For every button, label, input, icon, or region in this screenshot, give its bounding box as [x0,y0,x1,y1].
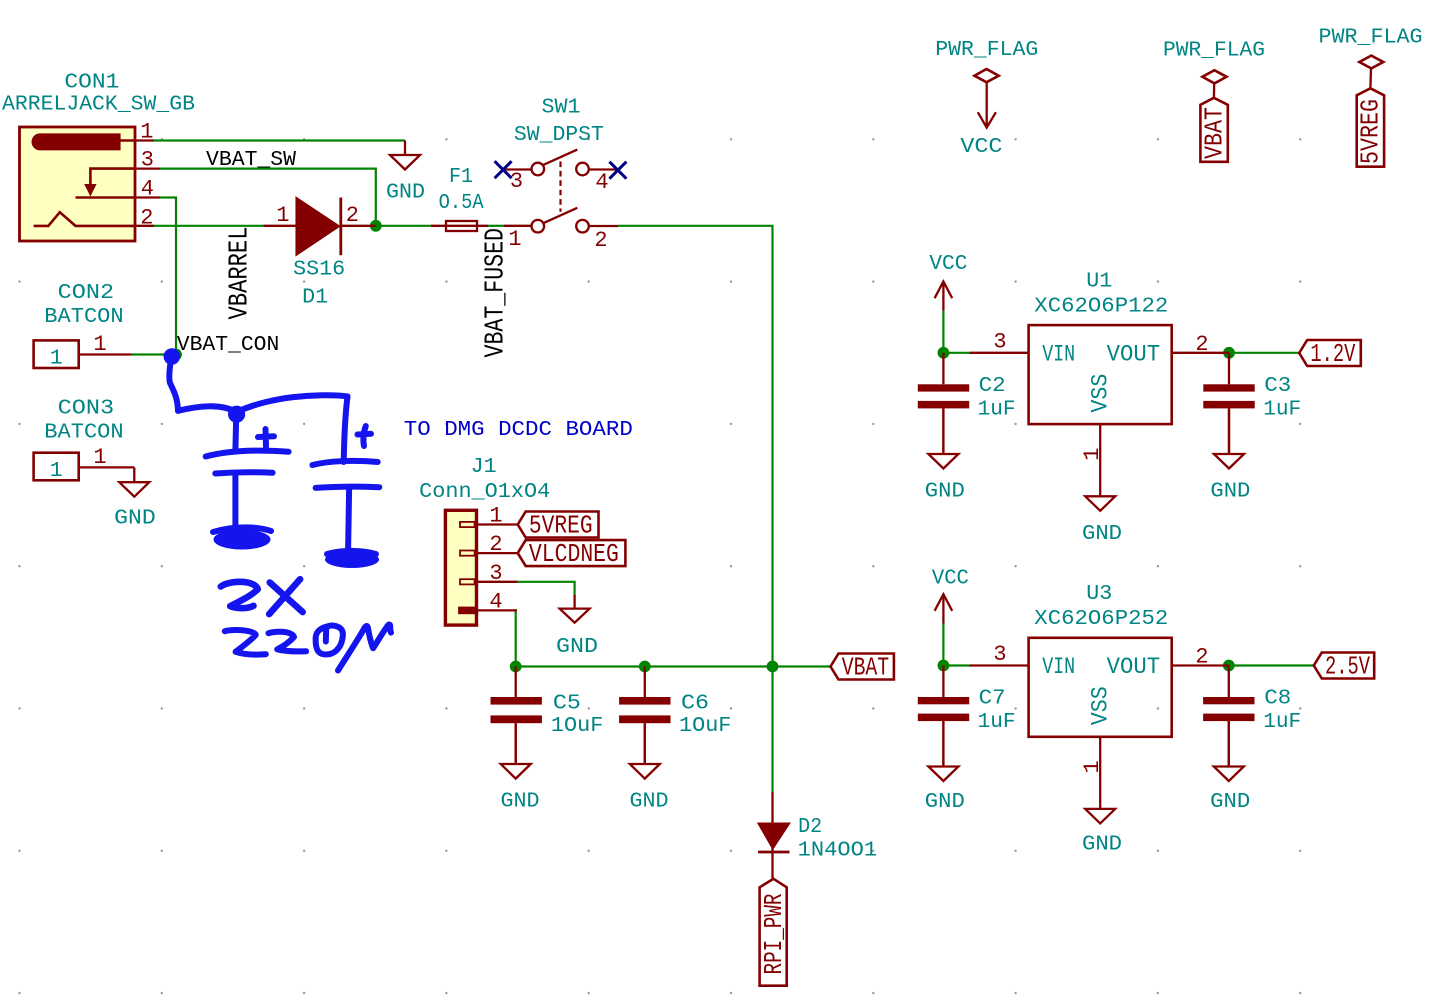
power flag 3 (5VREG) [1359,56,1383,89]
svg-text:BATCON: BATCON [44,305,123,329]
regulator U1 XC6206P122 [969,325,1229,491]
SW1 no-connect X pin3 [495,161,512,178]
svg-text:4: 4 [489,589,502,614]
svg-text:C5: C5 [553,692,581,716]
svg-text:VLCDNEG: VLCDNEG [529,540,619,569]
wire SW1 pin2 right and down to VBAT node [618,226,773,667]
svg-text:GND: GND [1082,522,1122,546]
wire U1 VOUT to 1.2V label [1229,352,1299,354]
svg-text:1: 1 [50,459,63,483]
annotation ink: handwritten 220u first 2 [225,630,266,655]
annotation ink: right plus sign [358,426,372,446]
svg-text:VBAT_CON: VBAT_CON [177,333,279,357]
svg-text:2: 2 [346,203,359,228]
global label VLCDNEG at J1 pin2 [518,540,626,566]
svg-text:GND: GND [925,480,965,504]
svg-text:BATCON: BATCON [44,421,123,445]
wire VBAT_SW net: CON1 pin3 right then down to D1 output node [160,169,376,226]
annotation ink: top run to right cap [178,395,348,412]
svg-text:CON1: CON1 [64,71,119,95]
power symbol VCC (down arrow) [978,87,996,128]
power flag 2 (VBAT) [1202,70,1226,98]
svg-text:1uF: 1uF [978,398,1016,422]
annotation ink: handwritten X of 2X [269,579,303,614]
svg-text:VBAT: VBAT [842,654,890,683]
connector J1 Conn_01x04 [445,510,517,625]
svg-text:1OuF: 1OuF [679,714,731,738]
annotation ink: left cap ground blob [214,530,271,550]
svg-text:VSS: VSS [1088,374,1115,413]
connector CON1 barrel jack symbol [20,127,161,241]
wire VBAT bus row to VBAT label [516,665,831,667]
svg-text:VBAT: VBAT [1200,107,1229,159]
annotation ink: right cap plate 1 [312,461,377,465]
ground at J1 pin3 [573,595,575,609]
SW1 no-connect X pin4 [609,162,626,179]
capacitor C8 1uF [1203,666,1254,767]
svg-text:4: 4 [595,170,608,195]
svg-text:U1: U1 [1086,270,1112,294]
connector CON3 BATCON [34,453,135,481]
node J1-C5 junction [510,661,522,673]
wire J1 pin4 down to bus [516,610,517,666]
svg-text:VBAT_FUSED: VBAT_FUSED [481,228,511,358]
svg-text:SS16: SS16 [293,258,345,282]
svg-text:1: 1 [276,203,289,228]
svg-text:D1: D1 [302,285,328,309]
svg-text:C7: C7 [979,687,1006,711]
svg-text:VBARREL: VBARREL [225,227,255,320]
annotation ink: right cap bottom lead [348,490,349,551]
annotation ink: right cap ground blob [325,551,379,568]
annotation ink: handwritten 2 of 2X [221,582,258,608]
annotation ink: left plus sign [258,429,274,447]
svg-text:1uF: 1uF [978,710,1016,734]
ground at C2 [942,408,944,454]
node C6 junction [639,661,651,673]
annotation ink: handwritten mu (nu zigzag) [338,625,391,671]
power symbol VCC at U3 [935,594,953,623]
capacitor C7 1uF [918,666,969,767]
global label 5VREG at J1 pin1 [518,512,599,538]
annotation ink: handwritten 220u second 2 [269,632,307,652]
svg-text:VIN: VIN [1042,342,1075,368]
svg-text:VSS: VSS [1088,686,1115,725]
svg-text:2.5V: 2.5V [1325,653,1371,682]
svg-text:2: 2 [1195,645,1208,670]
global label 2.5V [1314,653,1374,679]
global label VBAT [831,654,894,680]
svg-text:1.2V: 1.2V [1310,340,1356,369]
svg-text:5VREG: 5VREG [1357,99,1386,164]
svg-text:1uF: 1uF [1263,710,1301,734]
svg-text:C8: C8 [1264,687,1291,711]
node D1/F1/VBAT_SW junction [370,220,382,232]
svg-text:VOUT: VOUT [1107,342,1161,368]
node U1 VIN junction [938,347,950,359]
ground at CON3 [133,467,135,482]
ground at C7 [942,721,944,767]
svg-text:SW_DPST: SW_DPST [514,123,604,147]
svg-text:VCC: VCC [960,135,1002,159]
capacitor C2 1uF [918,353,969,454]
svg-text:2: 2 [140,206,153,231]
svg-text:XC62O6P252: XC62O6P252 [1034,607,1168,631]
svg-text:J1: J1 [471,455,497,479]
connector CON2 BATCON [34,340,132,368]
svg-text:Conn_O1xO4: Conn_O1xO4 [419,480,550,504]
wire VCC to U3 VIN node [943,624,969,666]
svg-text:GND: GND [1210,480,1250,504]
annotation ink: handwritten 220u zero [316,626,343,655]
svg-text:1: 1 [489,504,502,529]
annotation ink: left cap plate 1 [206,451,289,457]
annotation ink: blob over VBAT_CON node [164,348,181,365]
svg-text:VCC: VCC [932,567,969,591]
svg-text:1: 1 [93,445,106,470]
svg-text:GND: GND [386,181,425,205]
annotation ink: left cap bottom lead [232,475,238,526]
svg-text:CON3: CON3 [58,397,114,421]
svg-text:SW1: SW1 [542,96,581,120]
svg-text:VIN: VIN [1042,654,1075,680]
node U3 VOUT junction [1223,660,1235,672]
svg-text:1: 1 [1080,760,1105,773]
svg-text:VCC: VCC [929,252,967,276]
diode D1 SS16 [263,198,375,256]
global label 5VREG (vertical, top) [1357,88,1384,166]
svg-text:1: 1 [93,332,106,357]
svg-text:ARRELJACK_SW_GB: ARRELJACK_SW_GB [2,93,195,117]
annotation ink: left cap top lead [232,416,239,451]
svg-text:1: 1 [50,347,63,371]
svg-text:5VREG: 5VREG [529,512,593,541]
wire CON1 pin4 down to VBAT_CON node [160,198,176,355]
svg-text:PWR_FLAG: PWR_FLAG [1163,39,1265,63]
capacitor C5 10uF [491,667,542,765]
node VBAT_CON junction [170,349,182,361]
wire VBAT node down to D2 [771,667,773,793]
svg-text:RPI_PWR: RPI_PWR [760,894,789,975]
diode D2 1N4001 [758,792,789,879]
svg-text:GND: GND [114,507,156,531]
ground at C6 [644,723,646,764]
svg-text:3: 3 [993,330,1006,355]
ground at C8 [1228,721,1230,767]
svg-text:2: 2 [489,532,502,557]
svg-text:1: 1 [140,120,153,145]
svg-text:4: 4 [141,177,154,202]
svg-text:1N4OO1: 1N4OO1 [798,839,878,863]
ground at U3 VSS [1099,804,1101,809]
svg-text:GND: GND [1210,790,1250,814]
svg-text:PWR_FLAG: PWR_FLAG [935,38,1038,62]
svg-text:2: 2 [594,228,607,253]
wire CON1 pin2 to D1 anode [154,225,263,227]
annotation ink: left cap plate 2 [215,472,272,473]
global label VBAT (vertical, top) [1200,98,1227,162]
svg-text:XC62O6P122: XC62O6P122 [1034,295,1168,319]
switch SW1 SW_DPST [503,150,618,233]
svg-text:GND: GND [1082,832,1122,856]
ground at C5 [515,723,517,764]
annotation ink: lead from VBAT_CON node [169,356,178,411]
node U1 VOUT junction [1223,347,1235,359]
ground at C3 [1228,408,1230,454]
power symbol VCC at U1 [935,282,953,311]
wire D1 cathode node to fuse F1 [376,225,431,227]
svg-text:D2: D2 [798,815,822,839]
svg-text:F1: F1 [449,165,473,189]
svg-text:C2: C2 [979,374,1006,398]
svg-text:VOUT: VOUT [1107,654,1161,680]
annotation ink: right cap top lead [344,397,348,463]
svg-text:1: 1 [1080,448,1105,461]
svg-text:U3: U3 [1086,582,1112,606]
wire F1 to SW1 pin1 [488,225,504,227]
wire J1 pin3 to GND [518,582,575,595]
svg-text:1OuF: 1OuF [551,714,603,738]
wire U3 VOUT to 2.5V label [1229,664,1314,666]
svg-text:C3: C3 [1264,374,1291,398]
ground at U1 VSS [1099,492,1101,497]
capacitor C3 1uF [1203,353,1254,454]
annotation ink: junction blob [228,406,245,423]
svg-text:1uF: 1uF [1263,398,1301,422]
svg-text:VBAT_SW: VBAT_SW [206,148,296,172]
fuse F1 0.5A [431,221,488,231]
wire CON2 pin to VBAT_CON node [132,353,176,355]
wire VCC to U1 VIN node [943,311,969,353]
svg-text:3: 3 [141,148,154,173]
global label 1.2V [1299,340,1361,366]
wire CON1 pin1 to GND [154,139,405,141]
annotation ink: right cap plate 2 [316,487,380,488]
node U3 VIN junction [938,660,950,672]
svg-text:3: 3 [510,169,523,194]
node VBAT main junction [767,661,779,673]
svg-text:TO DMG DCDC BOARD: TO DMG DCDC BOARD [404,418,633,442]
svg-text:2: 2 [1195,332,1208,357]
svg-text:PWR_FLAG: PWR_FLAG [1319,26,1423,50]
power flag 1 (VCC) [974,69,998,87]
svg-text:O.5A: O.5A [439,191,484,215]
svg-text:GND: GND [556,635,598,659]
svg-text:C6: C6 [681,692,709,716]
svg-text:GND: GND [501,790,540,814]
global label RPI_PWR (vertical) [760,879,787,986]
ground at CON1 pin1 [404,141,406,156]
svg-text:GND: GND [925,790,965,814]
capacitor C6 10uF [619,667,670,765]
regulator U3 XC6206P252 [969,638,1229,804]
svg-text:GND: GND [630,790,669,814]
svg-text:CON2: CON2 [58,281,114,305]
svg-text:3: 3 [489,561,502,586]
svg-text:3: 3 [993,642,1006,667]
